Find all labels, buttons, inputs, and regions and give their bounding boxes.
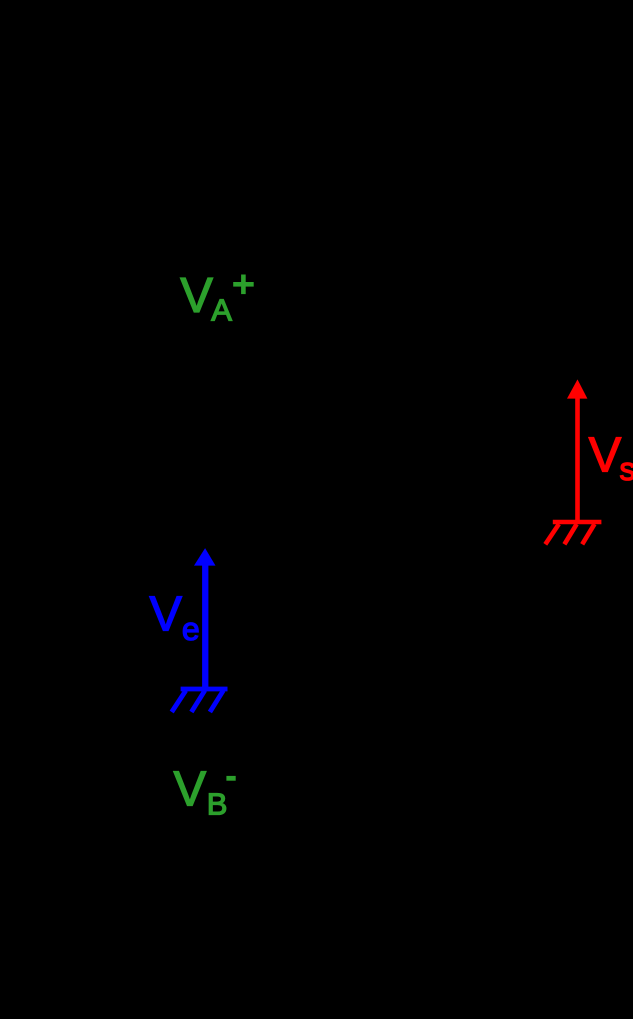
svg-text:e: e <box>182 611 200 647</box>
svg-text:B: B <box>207 786 228 821</box>
label Vs <box>589 429 633 488</box>
svg-text:V: V <box>174 763 207 817</box>
voltage arrow Vs (output) <box>567 379 587 520</box>
label Ve <box>149 587 199 647</box>
svg-text:A: A <box>211 293 232 328</box>
node B label V_B- <box>174 763 236 822</box>
ground (blue, input reference) <box>172 689 228 712</box>
svg-text:s: s <box>620 451 633 487</box>
voltage arrow Ve (input) <box>194 548 216 687</box>
svg-text:V: V <box>180 269 213 323</box>
ground (red, output reference) <box>545 522 601 544</box>
node A label V_A+ <box>180 269 253 328</box>
svg-text:V: V <box>149 587 182 641</box>
svg-text:V: V <box>589 429 622 483</box>
